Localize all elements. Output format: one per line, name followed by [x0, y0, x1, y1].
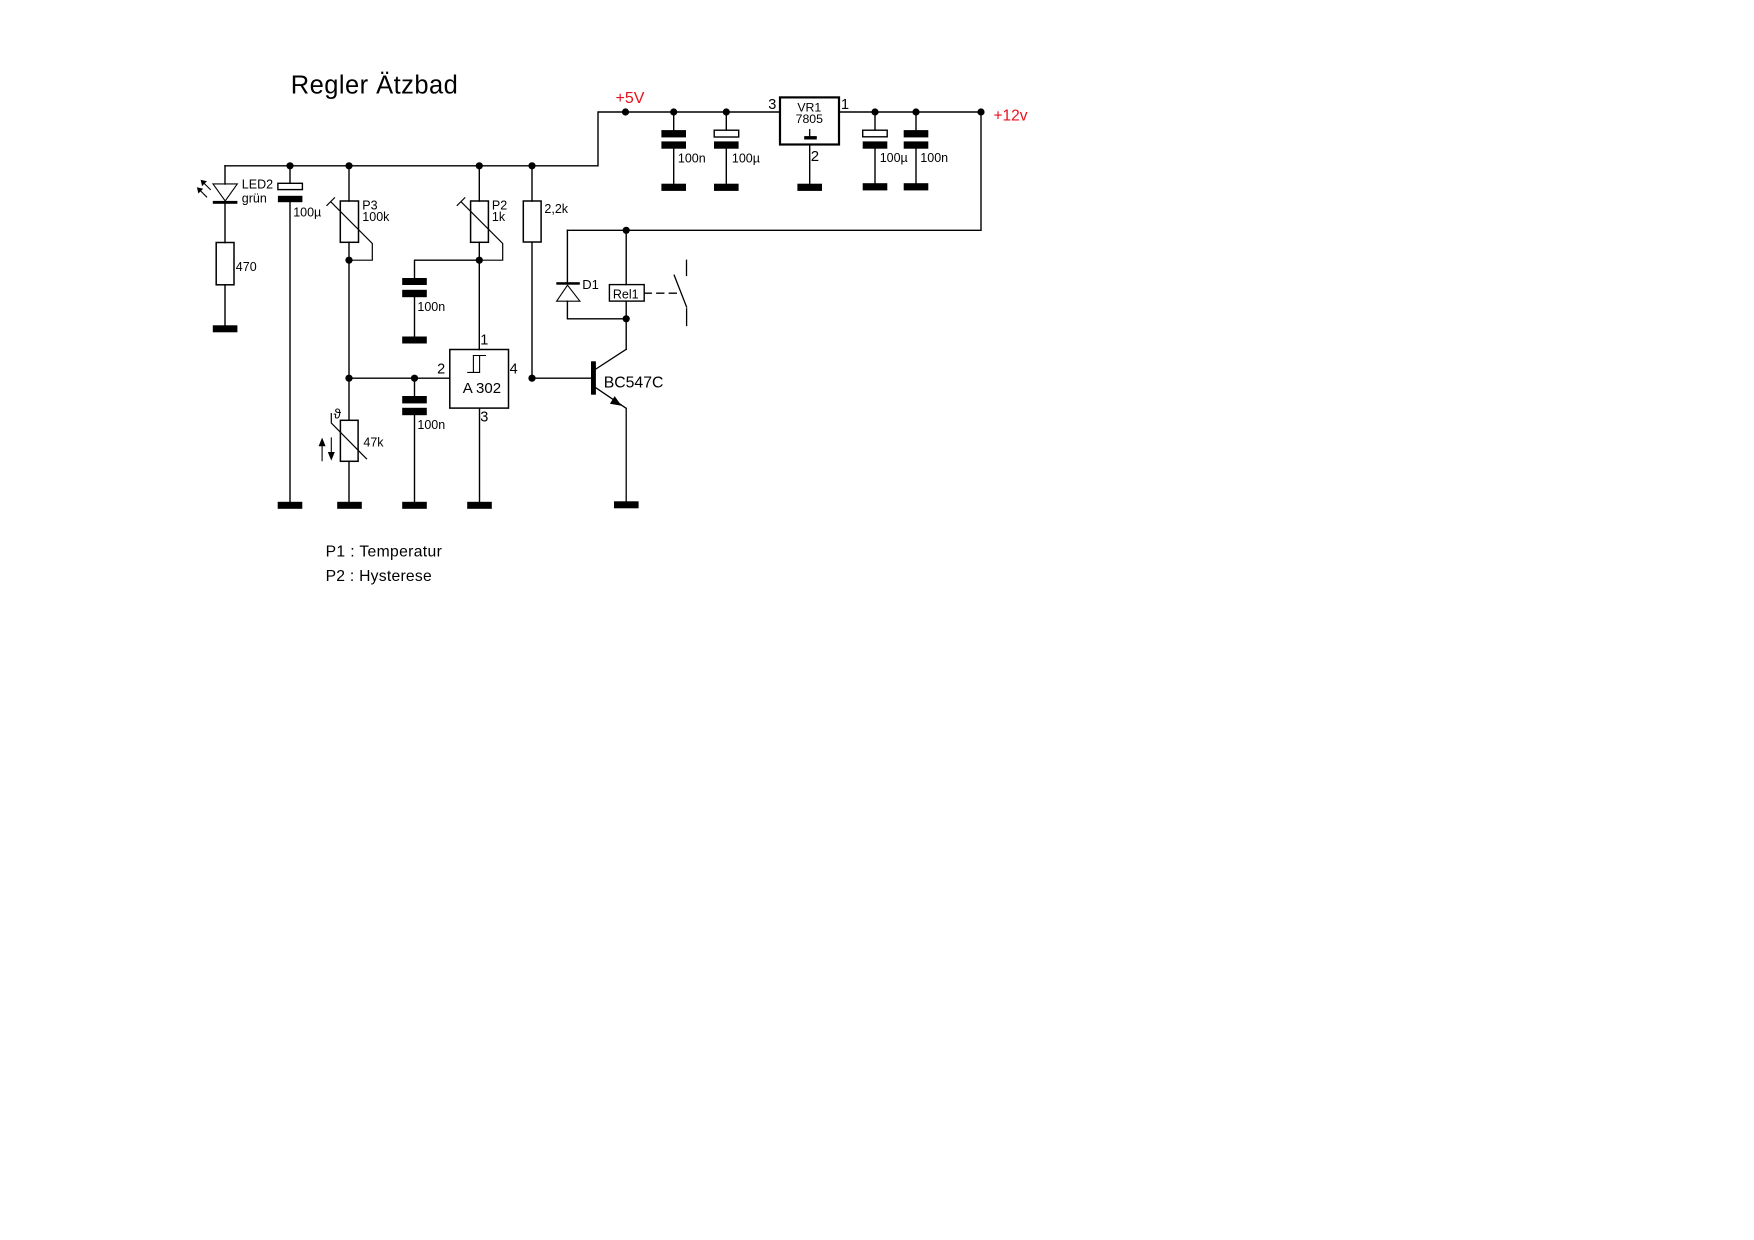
- svg-text:Regler Ätzbad: Regler Ätzbad: [291, 72, 458, 100]
- svg-text:ϑ: ϑ: [334, 406, 342, 421]
- svg-text:1: 1: [841, 97, 849, 113]
- svg-text:+5V: +5V: [616, 90, 645, 107]
- svg-text:47k: 47k: [363, 436, 384, 450]
- svg-text:100n: 100n: [417, 418, 445, 432]
- svg-text:100n: 100n: [920, 151, 948, 165]
- svg-text:1k: 1k: [492, 210, 506, 224]
- svg-text:1: 1: [480, 332, 488, 348]
- svg-text:A 302: A 302: [463, 380, 501, 397]
- svg-text:BC547C: BC547C: [604, 374, 664, 391]
- svg-text:100µ: 100µ: [732, 151, 760, 165]
- svg-text:100k: 100k: [362, 210, 390, 224]
- svg-text:LED2: LED2: [242, 177, 273, 191]
- svg-text:470: 470: [236, 260, 257, 274]
- svg-text:+12v: +12v: [994, 107, 1028, 124]
- svg-text:3: 3: [768, 97, 776, 113]
- svg-text:2: 2: [811, 148, 819, 165]
- svg-text:100µ: 100µ: [293, 205, 321, 219]
- svg-text:D1: D1: [582, 277, 599, 292]
- svg-text:2: 2: [437, 362, 445, 378]
- svg-text:P1 : Temperatur: P1 : Temperatur: [326, 543, 443, 560]
- svg-text:100µ: 100µ: [880, 151, 908, 165]
- svg-text:grün: grün: [242, 192, 267, 206]
- svg-text:3: 3: [480, 410, 488, 426]
- svg-text:100n: 100n: [417, 300, 445, 314]
- svg-text:4: 4: [510, 362, 518, 378]
- svg-text:Rel1: Rel1: [613, 288, 639, 302]
- svg-text:7805: 7805: [796, 112, 824, 126]
- svg-text:P2 : Hysterese: P2 : Hysterese: [326, 568, 432, 585]
- svg-text:100n: 100n: [678, 151, 706, 165]
- svg-text:2,2k: 2,2k: [544, 202, 568, 216]
